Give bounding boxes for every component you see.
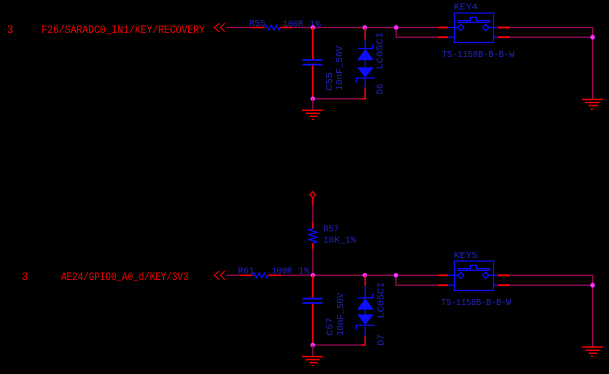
svg-text:R61: R61 — [238, 265, 255, 276]
wire R55 to switch (through junctions) — [292, 27, 438, 29]
ground (below C57) — [302, 345, 323, 366]
svg-text:F26/SARADC0_IN1/KEY/RECOVERY: F26/SARADC0_IN1/KEY/RECOVERY — [41, 25, 205, 37]
refdes label D7 (rotated) — [375, 334, 386, 345]
net name F26/SARADC0_IN1/KEY/RECOVERY — [41, 25, 205, 37]
svg-text:TS-1158B-B-B-W: TS-1158B-B-B-W — [442, 49, 515, 60]
svg-text:D7: D7 — [375, 334, 386, 345]
svg-text:3: 3 — [22, 272, 29, 284]
value label 100R 1% — [283, 18, 321, 29]
svg-text:10nF_50V: 10nF_50V — [335, 293, 346, 336]
off-page connector port (top) — [214, 23, 225, 32]
refdes label KEY5 — [454, 250, 478, 261]
refdes label KEY4 — [454, 2, 478, 13]
part label LC05CI (rotated, bottom) — [375, 282, 386, 319]
value label 10nF_50V (rotated, bottom) — [335, 293, 346, 336]
svg-text:10K_1%: 10K_1% — [323, 235, 356, 246]
refdes label D6 (rotated) — [374, 83, 385, 94]
net name AE24/GPIO0_A0_d/KEY/3V3 — [61, 272, 188, 284]
svg-text:D6: D6 — [374, 83, 385, 94]
svg-text:TS-1158B-B-B-W: TS-1158B-B-B-W — [441, 297, 511, 308]
TVS diode D7 — [356, 275, 374, 336]
TVS diode D6 — [356, 28, 374, 88]
part label TS-1158B-B-B-W (top) — [442, 49, 515, 60]
wire switch right to ground (upper) — [510, 28, 593, 100]
junction node at D6 top — [363, 25, 368, 30]
switch KEY4 pin stubs — [438, 28, 510, 38]
junction node right of switch — [590, 35, 595, 40]
part label LC05CI (rotated) — [374, 32, 385, 70]
svg-text:3: 3 — [7, 25, 14, 37]
wire switch right (bottom lower) — [510, 284, 593, 286]
junction node at C55 bottom / ground — [311, 97, 316, 102]
junction node at switch branch (bottom) — [394, 273, 399, 278]
off-page connector port (bottom) — [214, 271, 225, 280]
refdes label R61 — [238, 265, 255, 276]
wire branch down to lower switch pin — [396, 28, 438, 38]
junction node at C55 top — [311, 25, 316, 30]
svg-text:KEY5: KEY5 — [454, 250, 478, 261]
resistor R61 — [240, 273, 282, 278]
junction node at switch branch — [394, 25, 399, 30]
svg-text:AE24/GPIO0_A0_d/KEY/3V3: AE24/GPIO0_A0_d/KEY/3V3 — [61, 272, 188, 284]
junction node right of KEY5 — [590, 283, 595, 288]
refdes label R57 — [324, 223, 339, 234]
junction node at C57 bottom / ground — [311, 343, 316, 348]
svg-text:R57: R57 — [324, 223, 339, 234]
resistor R55 — [252, 25, 293, 30]
junction node at D7 top — [363, 273, 368, 278]
refdes label C57 (rotated) — [325, 318, 336, 336]
power net diamond (3V3 pull-up) — [310, 192, 316, 198]
wire port to R61 — [226, 274, 239, 276]
svg-text:LC05CI: LC05CI — [375, 282, 386, 319]
ground (below C55) — [302, 99, 323, 120]
wire branch down to lower switch pin (bottom) — [396, 275, 438, 285]
svg-text:10nF_50V: 10nF_50V — [334, 45, 345, 90]
capacitor C57 — [303, 275, 323, 345]
wire R61 to switch (through junctions) — [282, 274, 438, 276]
part label TS-1158B-B-B-W (bottom) — [441, 297, 511, 308]
refdes label R55 — [249, 18, 266, 29]
switch KEY4 — [448, 13, 498, 42]
svg-text:R55: R55 — [249, 18, 266, 29]
wire C55 bottom to D6 bottom — [313, 98, 362, 100]
wire switch right to ground (bottom upper) — [510, 275, 593, 347]
value label 100R 1% (bottom) — [272, 265, 310, 276]
wire C57 bottom to D7 bottom — [313, 344, 362, 346]
capacitor C55 — [303, 28, 323, 99]
value label 10nF_50V (rotated) — [334, 45, 345, 90]
svg-text:LC05CI: LC05CI — [374, 32, 385, 70]
svg-text:KEY4: KEY4 — [454, 2, 478, 13]
sheet reference 3 (top) — [7, 25, 14, 37]
junction node at R57 bottom / C57 top — [311, 273, 316, 278]
resistor R57 (pull-up) — [309, 198, 317, 275]
svg-text:C57: C57 — [325, 318, 336, 336]
value label 10K_1% — [323, 235, 356, 246]
wire port to R55 — [226, 27, 251, 29]
switch KEY5 — [448, 261, 498, 290]
ground (right of KEY5) — [582, 347, 603, 356]
sheet reference 3 (bottom) — [22, 272, 29, 284]
switch KEY5 pin stubs — [438, 275, 510, 285]
ground (right of KEY4) — [582, 99, 603, 109]
wire switch right (lower) — [510, 36, 593, 38]
refdes label C55 (rotated) — [324, 72, 335, 91]
